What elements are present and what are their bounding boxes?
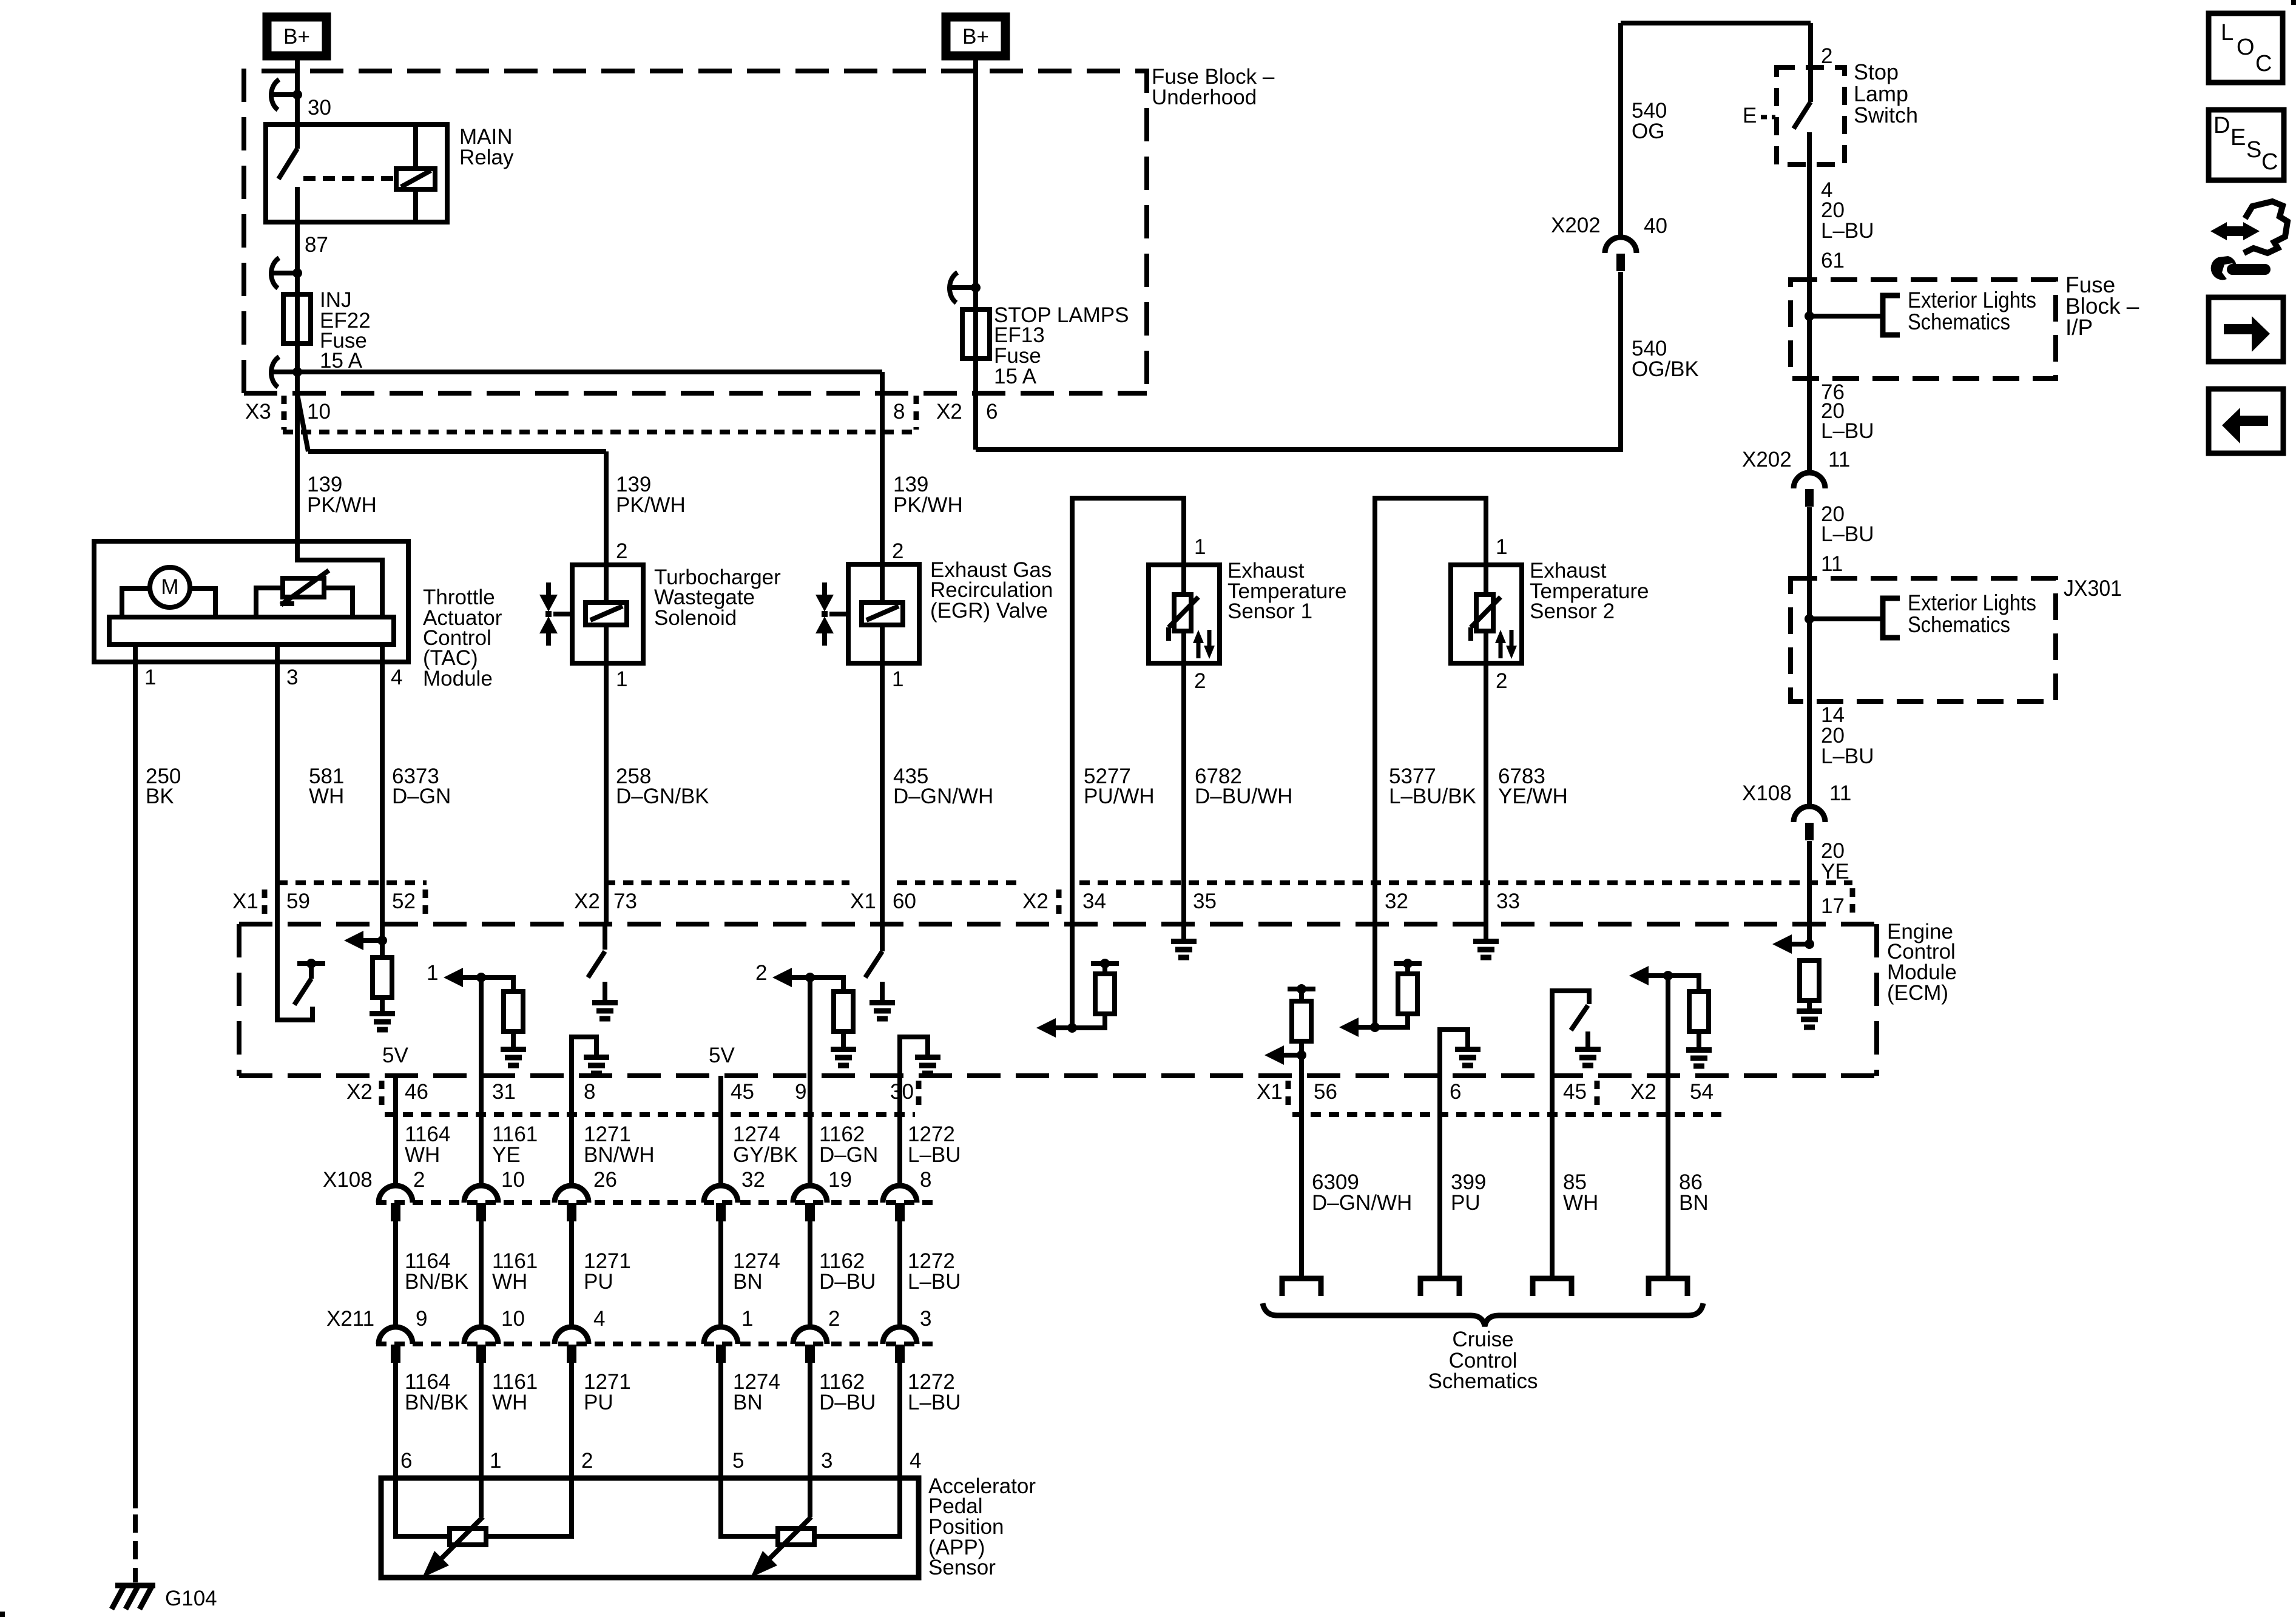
connector row bottom dotted line (right) <box>1292 1112 1729 1117</box>
ETS2 pulse arrows <box>1499 638 1503 658</box>
connector row top dotted line <box>277 880 427 885</box>
svg-text:E: E <box>1743 104 1757 127</box>
wire contact to resistor (56) <box>1299 989 1304 1001</box>
wire through JX301 <box>1807 578 1812 701</box>
svg-text:32: 32 <box>741 1168 765 1192</box>
svg-text:X3: X3 <box>245 400 271 424</box>
svg-text:2: 2 <box>581 1449 593 1473</box>
bracket exterior lights (I/P) <box>1883 295 1900 335</box>
connector X108 terminal 2 <box>464 1186 498 1203</box>
connector X108 terminal 4 <box>704 1186 738 1203</box>
svg-text:2: 2 <box>892 539 903 563</box>
svg-text:BN: BN <box>733 1270 763 1294</box>
wire through ETS2 <box>1484 565 1488 595</box>
wire X108 to ECM pin 17 <box>1807 841 1812 944</box>
wire resistor to ground (17) <box>1807 1001 1812 1008</box>
ground pin 17 <box>1797 1011 1822 1028</box>
svg-text:Sensor 1: Sensor 1 <box>1227 599 1312 623</box>
svg-text:17: 17 <box>1821 894 1845 918</box>
wire APP pin 4 internal <box>814 1478 900 1536</box>
svg-text:(EGR) Valve: (EGR) Valve <box>930 599 1048 623</box>
wire APP pin 3 wiper lead <box>808 1478 812 1517</box>
svg-text:87: 87 <box>305 233 328 257</box>
svg-text:(ECM): (ECM) <box>1887 981 1948 1005</box>
terminal clip pin 87 <box>271 258 297 288</box>
wire pin 8 to ground link <box>572 1037 596 1076</box>
svg-text:56: 56 <box>1314 1080 1337 1104</box>
chassis ground G104 <box>115 1583 155 1588</box>
svg-text:11: 11 <box>1829 781 1851 805</box>
wire resistor to 5v contact (34) <box>1102 964 1107 974</box>
signal arrow pin 56 <box>1284 1053 1302 1058</box>
svg-text:Schematics: Schematics <box>1908 612 2010 637</box>
svg-text:4: 4 <box>593 1307 605 1331</box>
sensor Exhaust Temperature Sensor 1 box <box>1149 565 1220 663</box>
connector row bottom dotted line (left) <box>385 1112 915 1117</box>
wire pin 59 into ECM <box>277 924 312 1020</box>
wastegate valve symbol <box>546 582 551 595</box>
svg-text:59: 59 <box>286 890 310 913</box>
wire 139 feed horizontal to wastegate column <box>308 449 606 454</box>
svg-text:31: 31 <box>492 1080 516 1104</box>
connector X108 terminal 1 <box>379 1186 413 1203</box>
wire X211 col5 down <box>808 1363 812 1478</box>
solenoid Turbocharger Wastegate box <box>572 565 643 663</box>
svg-text:PU: PU <box>584 1391 613 1414</box>
corner mark top right <box>2291 0 2296 5</box>
svg-text:Underhood: Underhood <box>1152 86 1257 109</box>
wastegate solenoid coil <box>586 603 627 625</box>
svg-text:11: 11 <box>1828 448 1850 471</box>
svg-text:Exterior Lights: Exterior Lights <box>1908 590 2036 615</box>
wire coil to box bottom <box>604 625 609 663</box>
svg-text:X1: X1 <box>850 890 876 913</box>
wire 540 OG vertical <box>1618 23 1623 237</box>
ETS2 thermistor <box>1476 595 1493 631</box>
svg-text:32: 32 <box>1385 890 1408 913</box>
svg-text:3: 3 <box>920 1307 931 1331</box>
svg-text:O: O <box>2237 35 2255 60</box>
resistor pin 52 pull-up <box>373 957 392 998</box>
stop lamp switch lower contact wire <box>1807 132 1812 280</box>
svg-text:Switch: Switch <box>1854 103 1918 127</box>
svg-text:1: 1 <box>1496 535 1507 559</box>
icon forward arrow box <box>2209 297 2283 362</box>
svg-text:1: 1 <box>892 667 903 691</box>
svg-text:3: 3 <box>286 666 298 689</box>
wire pin 54 down <box>1666 976 1670 1276</box>
svg-text:X1: X1 <box>232 890 258 913</box>
svg-text:52: 52 <box>392 890 416 913</box>
wire ETS1 lower <box>1181 631 1186 663</box>
svg-text:10: 10 <box>307 400 331 424</box>
svg-text:61: 61 <box>1821 249 1845 272</box>
wire pin31 branch to resistor <box>481 977 513 991</box>
wire X108 col6 down <box>897 1221 902 1328</box>
fuse block - underhood dashed outline <box>244 71 1147 393</box>
svg-text:11: 11 <box>1821 552 1843 576</box>
stop lamp switch dashed box <box>1777 67 1845 164</box>
svg-text:9: 9 <box>795 1080 806 1104</box>
wire APP pin 2 internal <box>486 1478 572 1536</box>
svg-text:D–GN: D–GN <box>392 785 451 808</box>
wire APP pin 6 internal <box>396 1478 450 1536</box>
ground pin 6 <box>1455 1050 1481 1066</box>
svg-text:D–BU/WH: D–BU/WH <box>1195 785 1292 808</box>
svg-text:YE: YE <box>1821 860 1849 883</box>
signal arrow pin 9 <box>792 975 810 980</box>
svg-text:PU: PU <box>584 1270 613 1294</box>
svg-text:L–BU: L–BU <box>908 1143 961 1167</box>
connector X211 terminal 2 <box>464 1327 498 1344</box>
svg-text:OG: OG <box>1632 120 1664 143</box>
wire EGR coil to box bottom <box>880 625 885 663</box>
signal arrow pin 17 <box>1792 942 1809 947</box>
connector X202 pin 40 <box>1605 237 1636 253</box>
svg-text:2: 2 <box>1496 669 1507 693</box>
wire 139 feed down to EGR valve <box>880 372 885 564</box>
node junction pin 34 <box>1067 1023 1077 1033</box>
svg-text:B+: B+ <box>283 25 310 49</box>
wire ETS2 lower <box>1484 631 1488 663</box>
wire X211 col1 down <box>393 1363 398 1478</box>
node junction JX301 tap <box>1805 614 1814 624</box>
connector X1 dotted bar (56) <box>1286 1081 1291 1107</box>
svg-text:30: 30 <box>890 1080 914 1104</box>
wire pin 35 to ground <box>1181 924 1186 939</box>
connector X108 pin 11 <box>1794 806 1825 822</box>
wire valve link <box>553 612 572 616</box>
svg-text:PK/WH: PK/WH <box>616 493 686 517</box>
svg-text:5V: 5V <box>709 1044 735 1067</box>
svg-text:2: 2 <box>1194 669 1206 693</box>
svg-text:S: S <box>2246 137 2261 163</box>
wire pin 9 down <box>808 977 812 1186</box>
wire motor left lead <box>122 589 150 617</box>
wire X108 col4 down <box>718 1221 723 1328</box>
signal arrow pin 31 <box>463 975 481 980</box>
wire pin 6 to ground link <box>1440 1030 1468 1076</box>
wire through I/P block <box>1807 280 1812 379</box>
sensor Exhaust Temperature Sensor 2 box <box>1451 565 1522 663</box>
wire ETS2 feed loop <box>1375 498 1486 883</box>
brace cruise control group <box>1263 1303 1703 1326</box>
svg-text:L–BU: L–BU <box>1821 219 1874 243</box>
svg-text:WH: WH <box>492 1391 527 1414</box>
wire X211 col4 down <box>718 1363 723 1478</box>
svg-text:1: 1 <box>427 961 438 985</box>
svg-text:30: 30 <box>308 96 331 120</box>
ground pin 35 <box>1171 942 1197 958</box>
svg-text:4: 4 <box>391 666 402 689</box>
svg-text:Sensor 2: Sensor 2 <box>1530 599 1615 623</box>
wire resistor to 5v contact (32) <box>1405 964 1410 974</box>
connector X211 terminal 1 <box>379 1327 413 1344</box>
module Engine Control Module (ECM) dashed outline <box>239 922 1877 927</box>
switch contact pin 59 <box>297 961 325 966</box>
resistor pin 56 <box>1292 1001 1311 1041</box>
node junction exterior lights tap <box>1805 311 1814 321</box>
wire tap to exterior lights bracket (JX301) <box>1809 616 1881 621</box>
relay actuation dashed link <box>303 176 394 181</box>
ETS1 thermistor <box>1174 595 1191 631</box>
connector X211 terminal 6 <box>883 1327 917 1344</box>
icon LOC box <box>2209 13 2283 83</box>
node junction pin 56 <box>1297 1050 1306 1060</box>
svg-text:WH: WH <box>1563 1191 1598 1215</box>
wire 5377 feed down to ECM <box>1373 883 1377 1027</box>
ground pin 9 <box>831 1050 856 1066</box>
svg-text:C: C <box>2261 149 2278 175</box>
connector X3 dotted bar <box>282 396 287 430</box>
svg-text:8: 8 <box>893 400 905 424</box>
svg-text:D–GN: D–GN <box>819 1143 878 1167</box>
svg-text:BK: BK <box>146 785 174 808</box>
svg-text:1: 1 <box>490 1449 501 1473</box>
svg-text:X2: X2 <box>346 1080 373 1104</box>
valve Exhaust Gas Recirculation box <box>848 564 919 663</box>
node junction pin30 <box>292 90 302 100</box>
wire pin 60 into ECM <box>880 924 885 950</box>
svg-text:34: 34 <box>1082 890 1106 913</box>
signal arrow pin 34 <box>1056 1025 1072 1030</box>
ground pin 52 <box>370 1014 395 1030</box>
terminal cruise wire 86 <box>1649 1278 1687 1296</box>
wire pin34 branch to resistor <box>1072 1014 1105 1028</box>
relay switch blade <box>295 124 300 149</box>
svg-text:PK/WH: PK/WH <box>893 493 963 517</box>
wire 6373 D-GN TAC pin4 down <box>380 662 385 940</box>
ETS1 pulse arrows <box>1197 638 1201 658</box>
wire pin 56 down <box>1299 1055 1304 1276</box>
wire X211 col3 down <box>569 1363 574 1478</box>
corner mark bottom left <box>0 1612 5 1617</box>
wire resistor to ground (54) <box>1697 1031 1701 1047</box>
TAC module output bar <box>109 617 394 644</box>
ground pin 73 <box>592 1003 618 1019</box>
contact bar pin 56 <box>1288 987 1315 991</box>
wire APP pin 5 internal <box>721 1478 778 1536</box>
fuse block I/P dashed outline <box>1791 280 2056 379</box>
node junction pin 9 <box>805 973 815 982</box>
svg-text:6: 6 <box>400 1449 412 1473</box>
wire clip to relay <box>295 95 300 124</box>
wire 139 feed to TAC module <box>295 372 300 541</box>
svg-text:6: 6 <box>986 400 998 424</box>
svg-text:OG/BK: OG/BK <box>1632 357 1699 381</box>
svg-text:Sensor: Sensor <box>928 1556 996 1579</box>
switch blade pin 59 <box>294 979 311 1005</box>
fuse STOP LAMPS EF13 15A <box>962 309 990 359</box>
svg-text:Schematics: Schematics <box>1908 309 2010 334</box>
svg-text:2: 2 <box>1821 44 1832 68</box>
connector row X211 dotted line <box>376 1342 934 1346</box>
TAC motor M <box>150 567 190 607</box>
svg-text:2: 2 <box>828 1307 840 1331</box>
svg-text:X211: X211 <box>326 1307 374 1331</box>
svg-text:BN: BN <box>1679 1191 1709 1215</box>
wire B+2 down <box>973 60 978 288</box>
svg-text:M: M <box>161 575 178 599</box>
svg-text:Stop: Stop <box>1854 59 1899 84</box>
svg-text:BN/BK: BN/BK <box>405 1391 468 1414</box>
svg-text:45: 45 <box>1563 1080 1587 1104</box>
svg-text:D–GN/WH: D–GN/WH <box>893 785 993 808</box>
wire 139 feed down to wastegate solenoid <box>604 451 609 565</box>
svg-text:X108: X108 <box>323 1168 373 1192</box>
wire pin 30 down <box>897 1076 902 1186</box>
svg-text:BN: BN <box>733 1391 763 1414</box>
connector X2 dotted bar (34) <box>1056 890 1062 916</box>
svg-text:B+: B+ <box>962 25 989 49</box>
wire clip to fuse INJ <box>295 273 300 294</box>
resistor pin 17 <box>1800 960 1819 1001</box>
resistor pin 31 <box>504 991 523 1031</box>
terminal cruise wire 85 <box>1533 1278 1572 1296</box>
wire pin 45 5V <box>718 1076 723 1186</box>
terminal clip fuse output <box>271 357 297 387</box>
svg-text:L: L <box>2221 20 2234 46</box>
contact bar pin 32 <box>1394 961 1422 966</box>
connector X211 terminal 3 <box>555 1327 589 1344</box>
svg-text:35: 35 <box>1193 890 1217 913</box>
wire X108 col1 down <box>393 1221 398 1328</box>
EGR valve symbol <box>822 582 827 595</box>
APP potentiometer 1 <box>450 1528 486 1545</box>
wire 139 diagonal branch through X3 <box>297 394 308 451</box>
svg-text:X1: X1 <box>1257 1080 1283 1104</box>
svg-text:33: 33 <box>1496 890 1520 913</box>
node junction stop fuse <box>971 283 981 292</box>
resistor pin 34 pull-up <box>1095 974 1115 1014</box>
wire 139 feed inside TAC <box>297 541 382 617</box>
connector dotted bar right of 30 <box>916 1081 922 1107</box>
node junction pin87 <box>292 268 302 278</box>
wire pin 73 into ECM <box>603 924 607 950</box>
wire ETS1 feed loop <box>1072 498 1184 883</box>
connector dotted bar right of 45b <box>1595 1081 1600 1107</box>
svg-text:G104: G104 <box>165 1587 217 1610</box>
icon DESC box <box>2209 110 2284 180</box>
wire into wastegate coil <box>604 565 609 603</box>
TAC throttle position sensor (variable resistor) <box>283 578 324 597</box>
wire TAC pin 3 <box>275 644 280 662</box>
svg-text:X2: X2 <box>936 400 962 424</box>
wire resistor to junction (56) <box>1299 1041 1304 1055</box>
svg-text:2: 2 <box>413 1168 425 1192</box>
wire EGR valve link <box>829 612 848 616</box>
svg-text:40: 40 <box>1644 214 1667 238</box>
wire switch to ground (73) <box>603 982 607 1000</box>
svg-text:5: 5 <box>732 1449 744 1473</box>
wire motor right lead <box>190 589 215 617</box>
resistor pin 54 <box>1689 991 1709 1031</box>
wire 581 WH TAC pin3 down <box>275 662 280 924</box>
svg-text:PU: PU <box>1451 1191 1481 1215</box>
wire 250 BK TAC pin1 down <box>133 662 138 1508</box>
power terminal B+ (battery feed 2) <box>946 17 1005 56</box>
node junction pin 31 <box>476 973 486 982</box>
svg-text:54: 54 <box>1690 1080 1714 1104</box>
ground pin 8 <box>584 1058 609 1074</box>
wire 5277 feed down to ECM <box>1070 883 1075 1028</box>
svg-text:8: 8 <box>584 1080 595 1104</box>
svg-text:1: 1 <box>144 666 156 689</box>
wire X108 col5 down <box>808 1221 812 1328</box>
svg-text:10: 10 <box>501 1307 525 1331</box>
terminal clip pin 30 <box>271 79 297 110</box>
svg-text:D–BU: D–BU <box>819 1270 876 1294</box>
svg-text:X108: X108 <box>1742 781 1792 805</box>
connector X211 terminal 5 <box>793 1327 827 1344</box>
wire pin 8 down <box>569 1076 574 1186</box>
wire 258 D-GN/BK wastegate down <box>604 663 609 924</box>
svg-text:WH: WH <box>492 1270 527 1294</box>
contact bar pin 34 <box>1091 961 1119 966</box>
wire tap to exterior lights bracket <box>1809 314 1881 319</box>
signal arrow pin 52 <box>363 938 382 943</box>
svg-text:YE/WH: YE/WH <box>1498 785 1568 808</box>
icon wrench diagnostic <box>2210 222 2260 240</box>
svg-text:15 A: 15 A <box>994 365 1037 388</box>
junction block JX301 dashed outline <box>1791 578 2056 701</box>
svg-text:D–BU: D–BU <box>819 1391 876 1414</box>
wire TPS right lead <box>324 588 353 617</box>
connector row X108 dotted line <box>376 1200 934 1205</box>
connector X108 terminal 6 <box>883 1186 917 1203</box>
svg-text:WH: WH <box>309 785 344 808</box>
wire into stop lamp switch pin 2 <box>1808 23 1813 102</box>
svg-text:PK/WH: PK/WH <box>307 493 377 517</box>
svg-text:Relay: Relay <box>459 146 514 169</box>
wire X211 col2 down <box>479 1363 484 1478</box>
wire pin 45 down <box>1550 1076 1555 1276</box>
relay coil <box>396 169 435 189</box>
resistor pin 9 <box>834 991 853 1031</box>
module Throttle Actuator Control (TAC) box <box>94 541 408 662</box>
svg-text:1: 1 <box>1194 535 1206 559</box>
connector row X3 dotted line <box>283 430 920 434</box>
svg-text:I/P: I/P <box>2065 315 2093 340</box>
connector dotted bar right of 17 <box>1850 888 1855 917</box>
wire B+1 to fuse block <box>295 60 300 95</box>
svg-text:6: 6 <box>1450 1080 1461 1104</box>
svg-text:Exterior Lights: Exterior Lights <box>1908 288 2036 312</box>
svg-text:X2: X2 <box>1022 890 1048 913</box>
wire pin 33 to ground <box>1484 924 1488 939</box>
EGR solenoid coil <box>862 603 903 625</box>
svg-text:Schematics: Schematics <box>1428 1369 1538 1393</box>
node junction pin 17 <box>1805 939 1814 949</box>
wire pin 31 down <box>479 977 484 1186</box>
svg-text:D: D <box>2213 113 2230 138</box>
stop lamp switch blade <box>1794 102 1811 129</box>
wire resistor to ground (9) <box>841 1031 846 1047</box>
svg-text:BN/WH: BN/WH <box>584 1143 655 1167</box>
wire 6783 ETS2 down <box>1484 663 1488 939</box>
wire 540 OG run to right <box>976 447 1621 452</box>
wire 250 BK dashed tail <box>133 1514 138 1582</box>
wire APP pin 1 wiper lead <box>479 1478 484 1517</box>
svg-text:4: 4 <box>910 1449 921 1473</box>
fuse INJ EF22 15A <box>283 294 311 343</box>
resistor pin 32 pull-up <box>1398 974 1417 1014</box>
wire pin 30 to ground link <box>900 1037 928 1076</box>
svg-text:19: 19 <box>828 1168 852 1192</box>
wire into EGR coil <box>880 564 885 603</box>
svg-text:2: 2 <box>616 539 627 563</box>
svg-text:L–BU: L–BU <box>908 1270 961 1294</box>
